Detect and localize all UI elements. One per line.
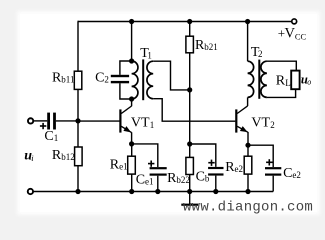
svg-text:e1: e1 [145, 177, 154, 187]
capacitor C1 [47, 113, 56, 130]
wire Rb22 node to Cb [190, 144, 216, 167]
svg-text:V: V [285, 26, 296, 42]
svg-text:1: 1 [150, 120, 155, 130]
wire T2 primary top to rail [247, 22, 249, 62]
capacitor Cb [208, 167, 223, 176]
svg-text:C: C [95, 70, 104, 85]
input terminal upper [28, 118, 33, 123]
wire +Vcc top rail [78, 21, 292, 23]
node T1 primary / rail [129, 19, 134, 24]
resistor RL [291, 71, 299, 90]
node ground symbol / rail [187, 189, 192, 194]
capacitor Ce1 [150, 167, 167, 176]
wire T1 primary top to rail [131, 22, 133, 62]
transformer T1 primary winding [132, 61, 138, 99]
svg-text:VT: VT [251, 116, 270, 131]
node VT1 emitter [129, 141, 134, 146]
node T1 primary top / C2 [129, 58, 134, 63]
wire Rb12 to ground rail [77, 166, 79, 192]
polarity + of Ce1 [148, 161, 154, 167]
ground symbol [181, 192, 198, 206]
svg-text:C: C [283, 166, 292, 181]
svg-text:CC: CC [295, 31, 307, 41]
node VT2 emitter [245, 143, 250, 148]
wire emitter node to Ce1 [132, 144, 158, 167]
svg-text:L: L [285, 78, 291, 88]
transformer T1 core [142, 59, 144, 100]
svg-text:e1: e1 [119, 162, 128, 172]
wire Rb22 to ground rail [189, 174, 191, 191]
wire Rb11 to base node [77, 89, 79, 121]
wire Re2 to ground rail [247, 174, 249, 191]
wire C2 parallel loop lower [120, 83, 132, 99]
wire emitter node to Re2 [247, 145, 249, 156]
transformer T2 core [258, 60, 260, 99]
node T2 primary / rail [245, 19, 250, 24]
svg-text:2: 2 [104, 75, 109, 85]
svg-text:i: i [31, 153, 34, 163]
capacitor Ce2 [265, 167, 281, 176]
wire base node to Rb12 [77, 121, 79, 147]
svg-text:o: o [307, 78, 311, 87]
wire Rb11 branch from rail [77, 22, 80, 72]
node VT1 base [75, 118, 80, 123]
svg-text:e2: e2 [235, 164, 244, 174]
wire C2 parallel loop upper [120, 61, 132, 75]
wire Rb22 node to Rb22 [189, 144, 191, 157]
resistor Rb12 [75, 147, 83, 166]
svg-text:b12: b12 [61, 152, 74, 162]
wire emitter node to Ce2 [248, 145, 273, 167]
wire ground bottom rail [33, 191, 273, 193]
wire Rb21 to bias node [189, 53, 191, 90]
svg-text:b: b [205, 174, 210, 184]
wire T1 secondary bottom to VT2 base [153, 99, 235, 122]
resistor Rb22 [186, 157, 194, 174]
wire RL bottom to T2 secondary [267, 89, 296, 97]
wire Rb21 branch from rail [189, 22, 191, 37]
polarity + of Cb [208, 160, 214, 166]
wire C1 to base node [56, 120, 78, 122]
svg-text:2: 2 [258, 49, 263, 59]
wire VT2 emitter to node [247, 132, 249, 145]
svg-text:e2: e2 [292, 170, 301, 180]
svg-text:R: R [276, 74, 286, 89]
transformer T2 secondary winding [261, 61, 267, 97]
svg-text:2: 2 [270, 120, 275, 130]
capacitor C2 [111, 75, 129, 84]
wire Cb to ground rail [215, 176, 217, 192]
resistor Re1 [128, 156, 136, 174]
transformer T1 secondary winding [147, 61, 153, 98]
node T1 secondary / Rb21 [187, 87, 192, 92]
transistor VT1 [119, 106, 131, 133]
wire bias node to Rb22 node [189, 90, 191, 144]
svg-text:C: C [136, 172, 145, 187]
node Rb12 / ground rail [75, 189, 80, 194]
resistor Rb11 [74, 71, 82, 89]
node Cb / ground rail [213, 189, 218, 194]
svg-text:C: C [44, 129, 53, 144]
wire Ce2 to ground rail [272, 176, 274, 192]
svg-text:1: 1 [147, 50, 152, 60]
node T1 primary bottom / VT1 collector [129, 96, 134, 101]
node Rb21 / rail [187, 19, 192, 24]
wire emitter node to Re1 [131, 144, 133, 156]
wire Ce1 to ground rail [157, 176, 159, 192]
wire T1 secondary top to bias node [153, 61, 190, 90]
node Re1 / ground rail [129, 189, 134, 194]
wire VT2 collector to T2 primary [247, 97, 249, 106]
resistor Re2 [244, 156, 252, 174]
node Rb22 / Cb [187, 141, 192, 146]
node Re2 / ground rail [245, 189, 250, 194]
svg-text:1: 1 [54, 133, 59, 143]
input terminal lower [28, 189, 33, 194]
resistor Rb21 [186, 36, 194, 53]
polarity + of C1 [40, 123, 46, 129]
node Ce1 / ground rail [155, 189, 160, 194]
transformer T2 primary winding [248, 61, 254, 97]
wire VT1 base [78, 120, 120, 122]
wire Re1 to ground rail [131, 174, 133, 191]
polarity + of Ce2 [266, 159, 272, 165]
supply terminal +Vcc [292, 19, 297, 24]
transistor VT2 [235, 106, 248, 133]
wire VT1 collector to T1 primary [131, 99, 133, 106]
wire input to C1 [33, 120, 47, 122]
svg-text:VT: VT [131, 116, 150, 131]
svg-text:www.diangon.com: www.diangon.com [183, 200, 313, 216]
wire T2 secondary to RL top [267, 61, 296, 70]
svg-text:b21: b21 [204, 42, 218, 52]
svg-text:b11: b11 [61, 74, 74, 84]
svg-text:b22: b22 [176, 175, 190, 185]
svg-text:C: C [196, 170, 205, 185]
wire VT1 emitter to node [131, 132, 133, 144]
